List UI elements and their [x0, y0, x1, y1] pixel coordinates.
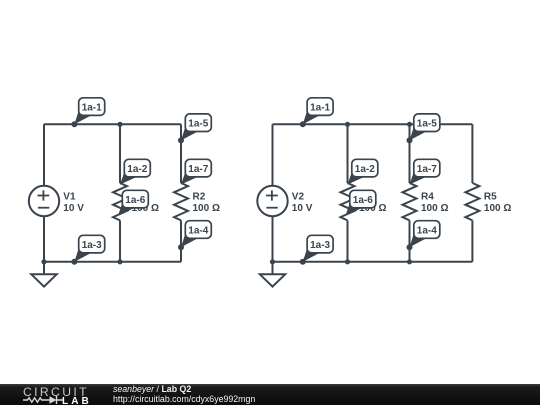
svg-text:10 V: 10 V: [63, 203, 84, 214]
svg-text:1a-6: 1a-6: [353, 195, 373, 206]
svg-text:V1: V1: [63, 192, 76, 203]
svg-text:R5: R5: [484, 192, 497, 203]
wire branch top lead: [180, 124, 182, 183]
node flag 1a-4: [407, 221, 440, 251]
node flag 1a-2: [348, 159, 378, 184]
wire middle branch top: [119, 124, 121, 183]
resistor R5 100: [465, 183, 511, 220]
svg-text:10 V: 10 V: [292, 203, 313, 214]
junction branch bottom: [407, 259, 412, 264]
wire middle branch bottom: [119, 220, 121, 261]
node flag 1a-1: [300, 98, 333, 128]
resistor R1 100: [113, 183, 159, 220]
voltage source V1 10 V: [29, 186, 84, 216]
svg-text:1a-4: 1a-4: [417, 225, 437, 236]
svg-text:1a-2: 1a-2: [355, 164, 375, 175]
svg-text:V2: V2: [292, 192, 305, 203]
junction middle bottom: [345, 259, 350, 264]
voltage source V2 10 V: [257, 186, 312, 216]
resistor R4 100: [403, 183, 449, 220]
junction middle bottom: [117, 259, 122, 264]
svg-text:1a-7: 1a-7: [188, 164, 208, 175]
node flag 1a-1: [71, 98, 104, 128]
CircuitLab logo: [0, 383, 540, 385]
svg-text:100 Ω: 100 Ω: [421, 203, 448, 214]
logo resistor-diode squiggle: [23, 396, 63, 404]
junction middle top: [345, 122, 350, 127]
junction ground node: [41, 259, 46, 264]
svg-text:1a-6: 1a-6: [125, 195, 145, 206]
wire source top lead: [272, 124, 274, 186]
svg-text:1a-3: 1a-3: [82, 240, 102, 251]
wire source bottom lead: [272, 216, 274, 262]
wire source bottom lead: [43, 216, 45, 262]
node flag 1a-2: [120, 159, 150, 184]
wire top rail: [273, 123, 473, 125]
wire bottom rail: [273, 261, 473, 263]
svg-text:1a-5: 1a-5: [188, 119, 208, 130]
node flag 1a-6: [346, 190, 376, 215]
node flag 1a-5: [178, 114, 211, 143]
svg-text:1a-5: 1a-5: [417, 119, 437, 130]
node flag 1a-6: [118, 190, 148, 215]
footer bar: [0, 384, 540, 405]
svg-text:100 Ω: 100 Ω: [193, 203, 220, 214]
svg-text:1a-4: 1a-4: [188, 225, 208, 236]
svg-text:1a-2: 1a-2: [127, 164, 147, 175]
ground: [260, 262, 285, 287]
wire bottom rail: [44, 261, 181, 263]
resistor R3 100: [341, 183, 387, 220]
svg-text:1a-3: 1a-3: [310, 240, 330, 251]
wire branch top lead: [471, 124, 473, 183]
node flag 1a-7: [181, 159, 211, 184]
svg-text:1a-1: 1a-1: [82, 102, 102, 113]
wire branch bottom lead: [180, 220, 182, 261]
node flag 1a-3: [300, 235, 333, 264]
svg-text:R4: R4: [421, 192, 434, 203]
ground: [31, 262, 56, 287]
svg-text:R2: R2: [193, 192, 206, 203]
svg-text:1a-1: 1a-1: [310, 102, 330, 113]
node flag 1a-7: [410, 159, 440, 184]
wire branch bottom lead: [471, 220, 473, 261]
junction branch top: [407, 122, 412, 127]
node flag 1a-5: [407, 114, 440, 143]
wire middle branch bottom: [347, 220, 349, 261]
node flag 1a-3: [71, 235, 104, 264]
resistor R2 100: [174, 183, 220, 220]
junction middle top: [117, 122, 122, 127]
wire branch bottom lead: [409, 220, 411, 261]
svg-text:1a-7: 1a-7: [417, 164, 437, 175]
node flag 1a-4: [178, 221, 211, 251]
wire middle branch top: [347, 124, 349, 183]
wire source top lead: [43, 124, 45, 186]
svg-text:100 Ω: 100 Ω: [484, 203, 511, 214]
wire top rail: [44, 123, 181, 125]
junction ground node: [270, 259, 275, 264]
footer text: [113, 384, 255, 405]
wire branch top lead: [409, 124, 411, 183]
